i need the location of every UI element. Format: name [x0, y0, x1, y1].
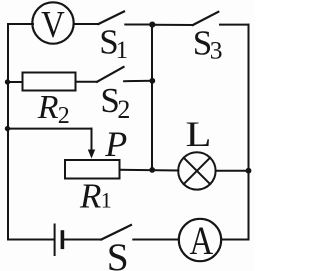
battery long plate	[54, 225, 56, 256]
junction node lamp-middle	[149, 167, 155, 173]
wire S3 to top-right corner	[220, 24, 249, 26]
lamp cross	[184, 158, 210, 184]
wire S2 to middle junction	[124, 80, 152, 82]
rheostat R1 box	[65, 160, 120, 179]
wire bottom-left corner to battery	[8, 239, 54, 241]
ammeter U A	[179, 219, 221, 261]
wire voltmeter to S1 pivot	[74, 23, 99, 25]
svg-text:P: P	[104, 124, 127, 164]
wire lamp to right wire	[216, 170, 249, 172]
junction node S2-middle	[149, 78, 155, 84]
wire battery to S pivot	[64, 239, 102, 241]
svg-text:A: A	[189, 218, 213, 263]
wire top-left to voltmeter	[8, 23, 33, 25]
wire top junction to S3 pivot	[152, 24, 193, 26]
junction node top	[149, 22, 155, 28]
svg-text:S: S	[107, 235, 129, 271]
svg-text:1: 1	[101, 188, 112, 213]
wire potentiometer feed horizontal	[8, 128, 92, 130]
voltmeter U V	[32, 2, 73, 43]
junction dot left-R2	[5, 79, 10, 84]
wire left wire to R2	[8, 81, 23, 83]
svg-text:R: R	[79, 176, 101, 215]
svg-text:R: R	[37, 89, 59, 126]
wire left vertical	[7, 24, 9, 240]
svg-text:V: V	[41, 2, 65, 45]
svg-text:2: 2	[58, 103, 70, 129]
switch S2 blade	[97, 67, 124, 82]
resistor R2	[23, 73, 76, 91]
wire S1 to top junction	[125, 24, 152, 26]
svg-text:L: L	[186, 114, 212, 154]
wire R1 to lamp junction	[120, 169, 179, 172]
switch S3 blade	[193, 12, 218, 25]
switch S blade	[101, 225, 131, 240]
wire middle vertical	[151, 25, 153, 171]
lamp L	[178, 152, 215, 189]
wire ammeter to bottom-right corner	[221, 239, 248, 241]
wiper arrowhead P	[88, 150, 95, 159]
junction dot left-feed	[5, 126, 10, 131]
wire S to ammeter	[133, 239, 179, 241]
wire R2 to S2 pivot	[76, 81, 98, 83]
wire wiper vertical	[91, 129, 93, 152]
switch S1 blade	[98, 12, 124, 25]
wire right vertical	[248, 25, 250, 240]
battery short plate	[61, 232, 65, 247]
junction node lamp-right	[246, 168, 252, 174]
